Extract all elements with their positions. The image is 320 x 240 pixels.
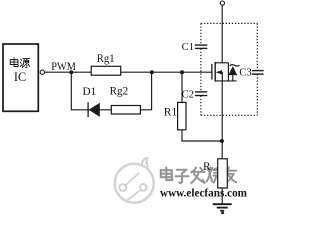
body rectangle right vertical (227, 63, 229, 81)
wire R to ground (221, 188, 223, 204)
svg-text:C1: C1 (182, 42, 194, 53)
diode D1 (88, 102, 100, 117)
watermark text 电子发烧友 (161, 167, 236, 183)
watermark logo circle (115, 158, 154, 203)
wire source lead down to R (221, 81, 223, 159)
svg-text:www.elecfans.com: www.elecfans.com (160, 188, 248, 200)
dashed top edge (201, 22, 257, 24)
source arrow stub (221, 72, 224, 81)
wire drain lead from terminal (221, 5, 223, 63)
power IC box U? (电源 IC) (3, 44, 38, 111)
dashed right edge (256, 23, 258, 115)
wire PWM output (44, 71, 211, 73)
channel bar (214, 62, 216, 82)
ground (213, 204, 232, 211)
MOSFET arrow (216, 70, 222, 74)
node junction Rg2 top (150, 70, 154, 74)
watermark text halo (161, 167, 236, 183)
pin circle on IC box (40, 70, 44, 74)
ground dot (221, 212, 224, 215)
svg-text:D1: D1 (83, 86, 97, 98)
MOSFET Q1 (212, 62, 237, 82)
svg-text:R: R (203, 161, 211, 173)
resistor R (218, 159, 228, 188)
svg-text:Rg1: Rg1 (97, 53, 115, 65)
dashed bottom edge (201, 114, 257, 116)
resistor R1 (178, 102, 186, 129)
node junction PWM/branch (69, 70, 73, 74)
svg-text:Rg2: Rg2 (110, 86, 129, 98)
svg-text:C3: C3 (239, 66, 252, 78)
source bottom horizontal (215, 80, 236, 82)
gate bar (211, 64, 213, 80)
svg-text:IC: IC (14, 70, 26, 84)
wire R1 branch down (182, 72, 222, 141)
body diode cathode wavy bar (230, 65, 240, 66)
resistor Rg2 (111, 106, 140, 115)
capacitor C1 (195, 45, 207, 48)
label 电源 (power) in IC box (10, 58, 30, 68)
dashed left edge (200, 23, 202, 115)
dashed parasitic box (201, 23, 257, 115)
terminal circle top (drain supply) (220, 1, 224, 5)
node junction source/R1 bottom (220, 139, 224, 143)
wire D1/Rg2 branch (71, 72, 151, 110)
capacitor C2 (195, 92, 207, 96)
svg-text:C2: C2 (182, 89, 194, 100)
resistor Rg1 (91, 66, 121, 75)
svg-text:R1: R1 (164, 107, 178, 119)
drain top horizontal (215, 62, 228, 64)
node junction R1 top (180, 70, 184, 74)
capacitor C3 (252, 71, 264, 75)
body diode triangle (228, 66, 237, 75)
body diode stem (232, 75, 234, 81)
svg-text:PWM: PWM (51, 59, 76, 73)
